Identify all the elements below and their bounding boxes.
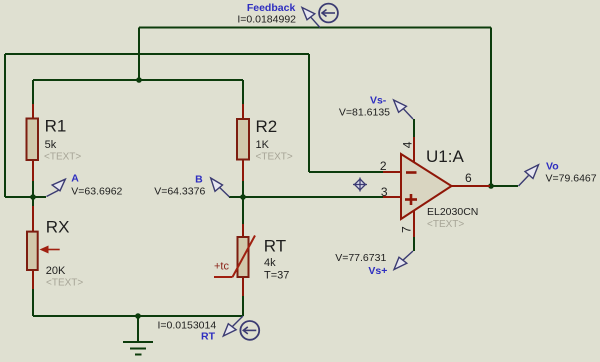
wire bridge top — [33, 79, 243, 81]
svg-text:<TEXT>: <TEXT> — [256, 152, 293, 163]
wire R2 bottom lead — [242, 181, 244, 197]
svg-text:R1: R1 — [45, 117, 67, 136]
svg-text:RT: RT — [201, 331, 216, 343]
pin 6 stub — [451, 185, 490, 187]
svg-text:RX: RX — [46, 218, 70, 237]
wire RX top lead — [32, 197, 34, 206]
wire node A horizontal — [5, 196, 46, 198]
pin 3 stub — [383, 196, 401, 198]
svg-text:7: 7 — [400, 226, 414, 233]
thermistor RT body — [238, 237, 249, 277]
svg-text:20K: 20K — [46, 265, 66, 277]
svg-text:<TEXT>: <TEXT> — [427, 219, 464, 230]
node A junction — [30, 194, 36, 200]
probe Vs- — [394, 100, 413, 119]
pin R2 bottom — [242, 159, 244, 181]
svg-text:1K: 1K — [256, 139, 270, 151]
svg-text:Vo: Vo — [546, 161, 559, 173]
wire R1 top lead — [32, 80, 34, 104]
svg-text:T=37: T=37 — [264, 270, 289, 282]
probe A — [47, 179, 66, 196]
wire pin4 lead — [413, 119, 415, 137]
origin marker — [353, 178, 367, 192]
wire R1 bottom lead — [32, 181, 34, 197]
pin R1 top — [32, 104, 34, 119]
op-amp plus — [405, 194, 417, 205]
resistor RX body — [27, 232, 38, 270]
svg-text:4k: 4k — [264, 257, 276, 269]
pin 4 stub — [413, 137, 415, 163]
svg-text:A: A — [71, 173, 79, 185]
RT thermistor strike — [214, 236, 255, 278]
svg-text:<TEXT>: <TEXT> — [46, 278, 83, 289]
probe Vs+ — [394, 251, 413, 270]
svg-text:Feedback: Feedback — [247, 2, 296, 14]
wire RT bottom lead — [242, 296, 244, 316]
wire node B horizontal — [229, 196, 383, 198]
svg-text:V=63.6962: V=63.6962 — [71, 186, 122, 198]
ground junction — [135, 313, 141, 319]
resistor R1 — [27, 119, 39, 161]
wire left rail top — [5, 53, 309, 55]
svg-text:R2: R2 — [256, 117, 278, 136]
current probe RT — [223, 316, 259, 340]
svg-text:V=81.6135: V=81.6135 — [339, 107, 390, 119]
svg-text:6: 6 — [465, 171, 472, 185]
pin RT bottom — [242, 277, 244, 296]
probe B — [211, 178, 230, 197]
svg-text:V=64.3376: V=64.3376 — [154, 186, 205, 198]
svg-text:Vs-: Vs- — [370, 95, 387, 107]
wire R2 top lead — [242, 80, 244, 104]
pin 2 stub — [383, 171, 401, 173]
svg-text:B: B — [195, 174, 203, 186]
svg-text:U1:A: U1:A — [426, 147, 464, 166]
op-amp U1 — [401, 154, 452, 219]
wire pin2 drop — [308, 54, 310, 172]
junction bridge top — [136, 77, 142, 83]
wire bottom rail — [33, 315, 243, 317]
svg-text:V=77.6731: V=77.6731 — [335, 252, 386, 264]
svg-text:EL2030CN: EL2030CN — [427, 206, 478, 218]
wire feedback top — [139, 27, 491, 29]
pin RT top — [242, 224, 244, 237]
wire RX bottom lead — [32, 289, 34, 316]
pin R1 bottom — [32, 160, 34, 181]
wire ground stub — [137, 316, 139, 341]
svg-text:3: 3 — [381, 185, 388, 199]
wire pin2 horizontal — [309, 171, 383, 173]
wire feedback left drop — [138, 28, 140, 81]
node B junction — [240, 194, 246, 200]
pin 7 stub — [413, 211, 415, 238]
RX wiper arrow — [40, 246, 60, 254]
pin RX top — [32, 206, 34, 232]
op-amp minus — [406, 171, 417, 174]
wire left rail — [4, 54, 6, 197]
current probe Feedback — [302, 4, 338, 28]
resistor R2 — [237, 119, 249, 160]
svg-text:4: 4 — [401, 141, 415, 148]
svg-text:<TEXT>: <TEXT> — [44, 152, 81, 163]
svg-text:RT: RT — [264, 237, 286, 256]
svg-text:+tc: +tc — [214, 261, 229, 273]
svg-text:5k: 5k — [45, 139, 57, 151]
wire RT top lead — [242, 197, 244, 224]
wire feedback right drop — [490, 28, 492, 187]
svg-text:Vs+: Vs+ — [368, 265, 387, 277]
svg-text:V=79.6467: V=79.6467 — [546, 173, 597, 185]
pin RX bottom — [32, 270, 34, 289]
svg-text:I=0.0184992: I=0.0184992 — [237, 14, 296, 26]
probe Vo — [519, 165, 539, 186]
ground — [123, 342, 153, 355]
wire output — [490, 185, 518, 187]
pin R2 top — [242, 104, 244, 119]
wire pin7 lead — [413, 237, 415, 251]
output junction — [488, 183, 494, 189]
svg-text:2: 2 — [380, 159, 387, 173]
